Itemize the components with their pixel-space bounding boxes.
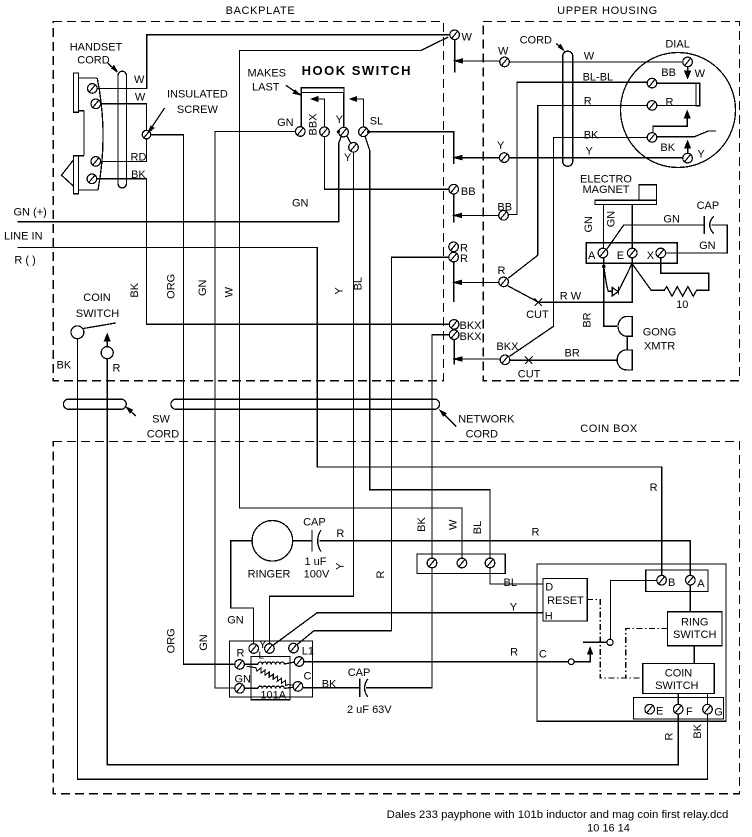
svg-text:BK: BK <box>416 517 428 532</box>
svg-text:GONG: GONG <box>643 327 677 339</box>
inductor winding top <box>245 662 295 665</box>
inductor screw L2 right <box>294 657 304 667</box>
svg-text:R: R <box>584 96 592 108</box>
coin switch contact arrow <box>106 340 108 346</box>
dial BB wire to blade <box>657 82 696 84</box>
svg-text:INSULATED: INSULATED <box>167 89 228 101</box>
wire W handset to corner riser <box>98 35 450 89</box>
UH terminal BB <box>499 211 509 221</box>
svg-text:BL: BL <box>504 577 517 589</box>
svg-text:CORD: CORD <box>147 428 179 440</box>
hook switch terminal SL <box>359 127 369 137</box>
wire GN (+) line-in to hook Y <box>18 136 342 221</box>
dial terminal R <box>647 101 657 111</box>
dial pulse up arrow <box>653 117 687 132</box>
coin switch drops to F G <box>678 693 707 704</box>
inductor winding diagonal <box>247 666 293 685</box>
hook switch bar stems <box>301 92 343 127</box>
svg-text:BK: BK <box>129 282 141 297</box>
handset cord <box>118 71 127 188</box>
svg-text:RD: RD <box>131 151 147 163</box>
UPPER HOUSING dashed enclosure <box>483 21 739 380</box>
electro magnet bar <box>595 200 657 204</box>
wire BL strip to reset D <box>490 568 543 584</box>
stub below BB terminal <box>453 194 455 222</box>
svg-text:R: R <box>664 732 676 740</box>
svg-text:MAKES: MAKES <box>248 68 287 80</box>
backplate terminal BB <box>449 184 459 194</box>
arrow Y cord to backplate <box>461 157 500 159</box>
UH terminal R <box>499 277 509 287</box>
ringer <box>252 521 293 562</box>
svg-text:R: R <box>460 253 468 265</box>
svg-text:Y: Y <box>510 602 518 614</box>
svg-text:GN: GN <box>227 614 244 626</box>
gong lower shell <box>617 350 632 370</box>
svg-text:BACKPLATE: BACKPLATE <box>226 5 296 17</box>
svg-text:CAP: CAP <box>303 517 326 529</box>
SW cord callout arrow <box>131 412 136 416</box>
svg-text:R: R <box>666 96 674 108</box>
svg-text:GN: GN <box>277 117 294 129</box>
wire SL to backplate stub <box>369 132 454 164</box>
strip screw BK <box>427 558 437 568</box>
wire GN from A to cap <box>606 225 704 250</box>
svg-text:MAGNET: MAGNET <box>582 184 629 196</box>
svg-text:BB: BB <box>497 201 512 213</box>
reset linkage dash-dot <box>587 599 643 678</box>
svg-text:10: 10 <box>676 299 688 311</box>
svg-text:BR: BR <box>565 348 580 360</box>
svg-text:UPPER HOUSING: UPPER HOUSING <box>557 5 658 17</box>
svg-text:GN: GN <box>198 634 210 651</box>
backplate terminal BKX upper <box>449 320 459 330</box>
svg-text:100V: 100V <box>304 569 330 581</box>
relay screw E <box>645 704 655 714</box>
link ring switch to coin switch <box>693 646 695 664</box>
wire Y to dial Y <box>509 157 683 159</box>
svg-text:W: W <box>584 51 595 63</box>
svg-text:COIN: COIN <box>83 292 111 304</box>
backplate terminal W <box>450 30 460 40</box>
hook switch actuator arrow over BBX <box>315 99 325 127</box>
hook switch makes-last bar <box>301 88 344 93</box>
svg-text:X: X <box>647 250 655 262</box>
contact dot at Y <box>337 130 340 133</box>
wire BBX down to BB terminal <box>325 137 449 189</box>
svg-text:BK: BK <box>322 678 337 690</box>
handset cord callout arrow <box>108 63 115 69</box>
wire Y mid screw to reset H <box>273 613 543 646</box>
svg-text:Y: Y <box>336 114 344 126</box>
svg-text:BB: BB <box>661 67 676 79</box>
coin switch contact R <box>101 347 113 359</box>
ring switch linkage dash-dot <box>626 629 668 678</box>
svg-text:SL: SL <box>370 115 383 127</box>
svg-text:SCREW: SCREW <box>177 104 219 116</box>
wire cap to X <box>666 225 727 253</box>
inductor screw C <box>293 682 303 692</box>
wire BK strip down to 2uF cap <box>366 568 432 688</box>
svg-text:BK: BK <box>584 130 599 142</box>
coin switch box <box>643 664 715 694</box>
svg-text:Y: Y <box>497 140 505 152</box>
svg-text:BL: BL <box>353 277 365 290</box>
magnet screw E <box>627 248 637 258</box>
wire R (-) line-in down and across to relay B <box>18 247 662 575</box>
magnet screw X <box>656 248 666 258</box>
hook switch terminal Y <box>339 127 349 137</box>
wire BK handset to BKX terminal <box>97 179 449 324</box>
svg-text:BB: BB <box>461 186 476 198</box>
inductor screw Y <box>249 644 259 654</box>
wire GN hook switch left and down to inductor GN <box>215 132 295 688</box>
stub below R terminal <box>453 262 455 302</box>
inductor screw R <box>235 660 245 670</box>
svg-text:CAP: CAP <box>348 667 371 679</box>
svg-text:E: E <box>617 250 624 262</box>
svg-text:R: R <box>510 647 518 659</box>
svg-text:Y: Y <box>259 639 267 651</box>
C contact circle <box>568 659 574 665</box>
arrow BKX cord to backplate <box>461 358 501 360</box>
svg-text:BL: BL <box>472 521 484 534</box>
hook switch terminal GN <box>296 127 306 137</box>
ringer cap plates 1uF <box>312 530 321 552</box>
junction dot below A <box>602 265 606 269</box>
svg-text:R: R <box>650 482 658 494</box>
dial terminal W <box>683 57 693 67</box>
dial circle <box>621 53 736 168</box>
hook switch terminal BBX <box>320 127 330 137</box>
dial R wire to blade <box>657 104 696 106</box>
strip screw BL <box>485 558 495 568</box>
svg-text:F: F <box>686 706 693 718</box>
svg-text:GN: GN <box>292 197 309 209</box>
svg-text:DIAL: DIAL <box>665 38 689 50</box>
wire ORG insulated screw down to inductor R <box>151 135 235 665</box>
svg-text:1 uF: 1 uF <box>305 556 327 568</box>
svg-text:W: W <box>498 46 509 58</box>
svg-text:R: R <box>532 526 540 538</box>
svg-text:W: W <box>224 286 236 297</box>
wire BR BKX to gong with cut <box>510 359 617 361</box>
svg-text:Y: Y <box>697 148 705 160</box>
cap GN plates <box>704 216 714 234</box>
svg-text:Y: Y <box>344 152 352 164</box>
insulated screw callout arrow <box>152 108 165 128</box>
svg-text:A: A <box>697 578 705 590</box>
inductor outer box <box>230 641 313 697</box>
backplate terminal R lower <box>449 252 459 262</box>
SW cord sleeve <box>63 399 126 409</box>
wire R W with cut <box>508 258 632 302</box>
network cord callout arrow <box>445 415 456 426</box>
coin box terminal strip <box>417 554 505 574</box>
svg-text:GN (+): GN (+) <box>14 207 47 219</box>
svg-text:RINGER: RINGER <box>248 569 291 581</box>
magnet terminal strip <box>586 243 677 263</box>
coin switch lever <box>83 323 116 329</box>
ring switch box <box>667 612 722 646</box>
svg-text:101A: 101A <box>260 690 286 702</box>
svg-text:GN: GN <box>699 240 716 252</box>
svg-text:10 16 14: 10 16 14 <box>587 822 630 834</box>
svg-text:G: G <box>714 707 723 719</box>
svg-text:L: L <box>259 651 265 662</box>
svg-text:RESET: RESET <box>547 595 584 607</box>
wire BKX lower to BK drop <box>432 335 449 559</box>
svg-text:ORG: ORG <box>166 274 178 299</box>
svg-text:GN: GN <box>605 211 617 228</box>
dial impulse blade <box>696 83 700 106</box>
dial W down arrow <box>687 67 689 72</box>
backplate terminal BKX lower <box>449 330 459 340</box>
relay screw A <box>686 575 696 585</box>
wire W to dial W <box>509 61 683 63</box>
svg-text:R: R <box>237 648 245 660</box>
svg-text:CUT: CUT <box>526 309 549 321</box>
svg-text:SWITCH: SWITCH <box>655 680 698 692</box>
svg-text:L1: L1 <box>302 646 314 658</box>
svg-text:LINE IN: LINE IN <box>4 231 43 243</box>
svg-text:CORD: CORD <box>520 34 552 46</box>
arrow W cord to backplate <box>462 60 501 62</box>
coin switch pivot BK <box>71 326 84 339</box>
svg-text:W: W <box>134 74 145 86</box>
svg-text:COIN BOX: COIN BOX <box>580 423 638 435</box>
B A terminal strip <box>646 570 708 592</box>
cord callout arrow <box>556 44 560 48</box>
svg-text:2 uF 63V: 2 uF 63V <box>347 704 392 716</box>
relay unit box <box>537 564 726 721</box>
svg-text:NETWORK: NETWORK <box>458 413 515 425</box>
inductor screw GN <box>235 684 245 694</box>
wire R cap to relay A <box>320 541 691 576</box>
UH terminal Y <box>499 153 509 163</box>
diode with leads <box>604 267 613 292</box>
svg-text:R: R <box>498 265 506 277</box>
svg-text:W: W <box>462 31 473 43</box>
svg-text:R: R <box>336 528 344 540</box>
wire A to ring switch <box>689 585 691 612</box>
gong upper shell <box>618 316 632 336</box>
svg-text:W: W <box>135 91 146 103</box>
svg-text:CUT: CUT <box>518 369 541 381</box>
svg-text:LAST: LAST <box>252 82 280 94</box>
svg-text:W: W <box>695 68 706 80</box>
inductor screw L1 <box>289 643 299 653</box>
UH terminal W <box>500 57 510 67</box>
C moving contact arrow <box>574 654 590 662</box>
hook switch actuator arrow over SL <box>354 99 364 127</box>
relay screw B <box>657 575 667 585</box>
armature lever <box>583 641 607 643</box>
handset body <box>62 73 104 194</box>
wire R coin switch to relay F <box>107 359 678 765</box>
svg-text:SWITCH: SWITCH <box>76 308 119 320</box>
wire BL-BL BB to dial BB <box>508 82 647 214</box>
stub below BKX terminal <box>453 340 455 365</box>
svg-text:E: E <box>656 705 663 717</box>
wire ringer to cap <box>293 540 312 542</box>
cut X on BR <box>525 356 532 363</box>
svg-text:CORD: CORD <box>466 428 498 440</box>
reset coil box <box>543 578 587 621</box>
svg-text:BK: BK <box>660 142 675 154</box>
arrow BB cord to backplate <box>460 214 499 216</box>
svg-text:RING: RING <box>681 617 709 629</box>
strip screw W <box>457 558 467 568</box>
svg-text:CAP: CAP <box>697 200 720 212</box>
dial Y up arrow <box>687 147 689 153</box>
svg-text:COIN: COIN <box>665 668 693 680</box>
cap 2uF plates <box>360 679 368 698</box>
svg-text:BKX: BKX <box>496 341 519 353</box>
svg-text:BBX: BBX <box>308 113 320 136</box>
wire A down to gong <box>604 258 617 326</box>
svg-text:W: W <box>448 519 460 530</box>
wire Y from lower Y down to inductor <box>269 153 353 644</box>
wire W vertical to W terminal and down to coin box strip <box>240 37 463 558</box>
COIN BOX dashed enclosure <box>53 441 739 793</box>
wire R cord to dial R <box>508 105 647 278</box>
inductor coil box 101A <box>251 657 290 700</box>
svg-text:XMTR: XMTR <box>644 341 675 353</box>
svg-text:GN: GN <box>235 674 252 686</box>
svg-text:BL-BL: BL-BL <box>583 72 614 84</box>
coil lead GN E <box>631 205 633 248</box>
handset terminal screws <box>88 84 98 94</box>
svg-text:R W: R W <box>560 290 582 302</box>
armature pivot circle <box>607 639 613 645</box>
dial terminal BB <box>647 78 657 88</box>
insulated screw <box>142 130 151 139</box>
svg-text:Y: Y <box>586 145 594 157</box>
UH terminal BKX <box>500 355 510 365</box>
coil lead GN A <box>602 205 604 248</box>
contact dot at SL <box>367 130 370 133</box>
wire B to armature pivot <box>611 580 657 639</box>
arrow R cord to backplate <box>460 281 499 283</box>
svg-text:D: D <box>545 581 553 593</box>
stub below W terminal <box>454 40 456 73</box>
svg-text:BK: BK <box>57 359 72 371</box>
network cord sleeve <box>171 399 440 409</box>
dial off-normal lever <box>657 131 716 137</box>
wire BK coin switch to relay G <box>77 339 707 780</box>
relay screw G <box>703 704 713 714</box>
wire R lower screw down to inductor L1 <box>297 257 449 644</box>
inductor winding bottom <box>245 686 293 689</box>
svg-text:GN: GN <box>583 216 595 233</box>
svg-text:Y: Y <box>334 287 346 295</box>
makes-last callout arrow <box>286 85 295 91</box>
wire W2 handset to insulated screw <box>101 104 147 131</box>
dial terminal BK <box>647 133 657 143</box>
wire RD handset to screw stub <box>101 139 147 162</box>
svg-text:Dales 233 payphone with 101b i: Dales 233 payphone with 101b inductor an… <box>387 809 729 821</box>
wire ringer to inductor Y <box>231 541 254 644</box>
wire BL from SL down to coin strip BL <box>365 136 490 558</box>
svg-text:GN: GN <box>197 279 209 296</box>
svg-text:BR: BR <box>581 312 593 327</box>
svg-text:GN: GN <box>663 213 680 225</box>
gong connector <box>626 336 628 350</box>
svg-text:A: A <box>588 250 596 262</box>
upper housing cord <box>563 51 573 166</box>
svg-text:BK: BK <box>131 169 146 181</box>
hook Y to lower Y blade <box>347 136 351 143</box>
svg-text:HOOK SWITCH: HOOK SWITCH <box>302 63 412 78</box>
svg-text:H: H <box>545 611 553 623</box>
BACKPLATE dashed enclosure <box>53 21 443 380</box>
svg-text:R ( ): R ( ) <box>14 255 35 267</box>
svg-text:SW: SW <box>152 413 170 425</box>
svg-text:BK: BK <box>692 723 704 738</box>
wire BK cord to dial BK and BKX <box>510 138 648 357</box>
svg-text:BKX: BKX <box>460 331 483 343</box>
electro magnet core <box>639 185 656 200</box>
svg-text:SWITCH: SWITCH <box>673 629 716 641</box>
cut X on R W <box>535 298 542 305</box>
relay screw F <box>673 704 683 714</box>
svg-text:CORD: CORD <box>77 55 109 67</box>
svg-text:R: R <box>113 363 121 375</box>
svg-text:C: C <box>304 671 312 683</box>
wire C inductor to cap <box>303 687 360 689</box>
resistor 10 with leads <box>632 258 709 296</box>
inductor screw L2 top <box>265 644 275 654</box>
dial terminal Y <box>683 153 693 163</box>
wire R L2 to relay C contact <box>304 661 568 663</box>
svg-text:Y: Y <box>334 562 346 570</box>
hook switch terminal Y lower <box>349 143 359 153</box>
svg-text:HANDSET: HANDSET <box>70 41 123 53</box>
svg-text:ORG: ORG <box>166 628 178 653</box>
backplate terminal R upper <box>449 242 459 252</box>
svg-text:R: R <box>375 570 387 578</box>
E F G terminal strip <box>634 697 724 719</box>
svg-text:B: B <box>668 577 675 589</box>
svg-text:C: C <box>539 649 547 661</box>
magnet screw A <box>598 248 608 258</box>
